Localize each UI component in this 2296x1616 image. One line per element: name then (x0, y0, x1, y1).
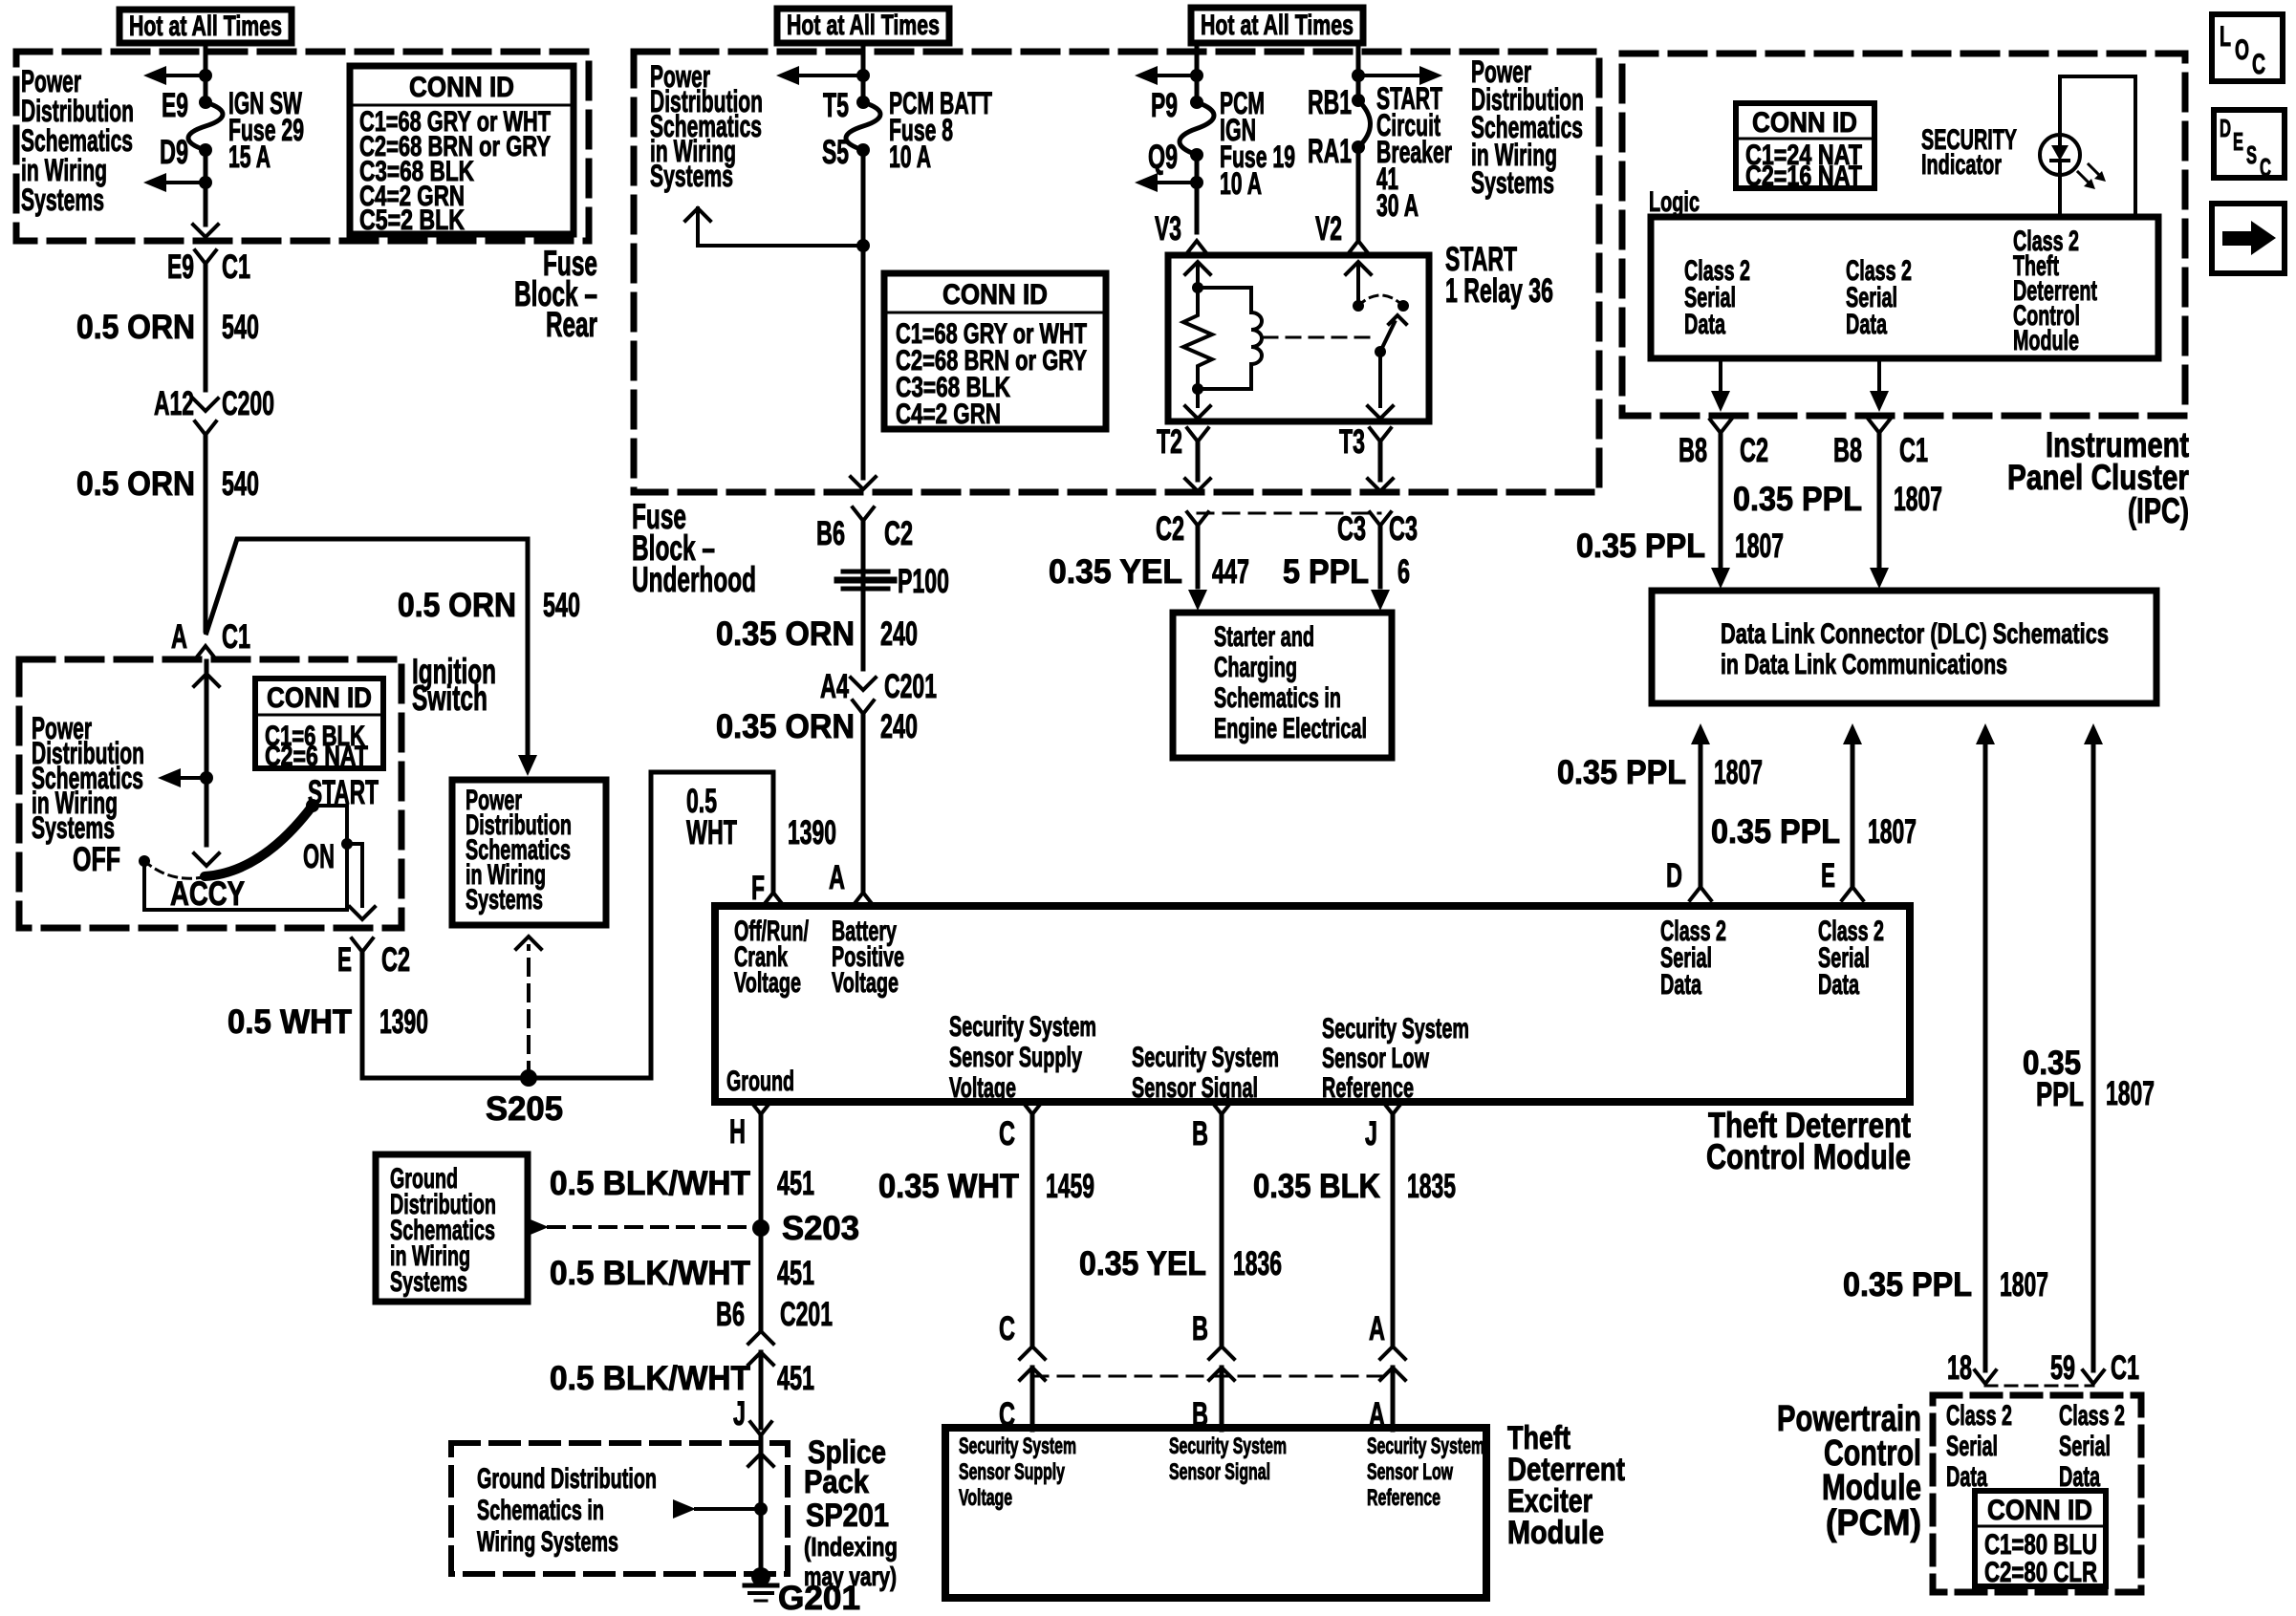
svg-text:240: 240 (880, 708, 918, 745)
connector chevron T2 (1187, 428, 1208, 442)
module box Theft Deterrent Exciter Module (945, 1428, 1486, 1598)
CONN ID table (PCM) (1975, 1491, 2106, 1586)
svg-text:240: 240 (880, 615, 918, 653)
wire from breaker junction (1356, 43, 1361, 100)
svg-text:Q9: Q9 (1148, 139, 1178, 176)
svg-text:Wiring Systems: Wiring Systems (477, 1526, 618, 1558)
svg-text:Systems: Systems (21, 183, 104, 217)
svg-text:A: A (829, 859, 845, 896)
svg-text:C: C (2252, 49, 2265, 80)
svg-text:Security System: Security System (1367, 1433, 1484, 1459)
svg-text:Starter and: Starter and (1214, 621, 1314, 653)
wire C sensor supply (1030, 1114, 1035, 1345)
svg-text:C4=2 GRN: C4=2 GRN (896, 399, 1001, 430)
svg-text:0.35 PPL: 0.35 PPL (1733, 481, 1862, 518)
LED flash arrows (2078, 172, 2091, 185)
svg-text:1390: 1390 (379, 1003, 428, 1041)
svg-text:0.5 BLK/WHT: 0.5 BLK/WHT (550, 1165, 750, 1202)
svg-text:5 PPL: 5 PPL (1283, 553, 1369, 591)
svg-text:C2: C2 (1156, 510, 1184, 548)
svg-text:0.35 BLK: 0.35 BLK (1253, 1168, 1380, 1205)
in-line connector C201 crossing (A4) (851, 678, 876, 690)
svg-text:B: B (1192, 1310, 1208, 1347)
node junction below fuse 8 (856, 239, 870, 252)
svg-text:Switch: Switch (412, 679, 487, 718)
connector chevron 59/C1 (2083, 1370, 2104, 1384)
svg-text:1459: 1459 (1046, 1168, 1094, 1205)
svg-text:T2: T2 (1157, 423, 1182, 461)
svg-text:C2=80 CLR: C2=80 CLR (1984, 1557, 2097, 1588)
wire T3 to starter box (1378, 526, 1383, 587)
svg-text:C: C (999, 1310, 1015, 1347)
svg-text:Control Module: Control Module (1706, 1137, 1911, 1176)
svg-text:B6: B6 (816, 515, 845, 552)
svg-text:V3: V3 (1155, 210, 1181, 248)
in-line connector C201 (ground) (748, 1331, 773, 1344)
wire A to exciter (1391, 1368, 1396, 1430)
svg-text:Data: Data (1818, 969, 1859, 1001)
connector chevron B6/C2 (underhood) (853, 507, 874, 521)
arrow into Power Distribution box (518, 755, 537, 776)
svg-text:Systems: Systems (1471, 165, 1554, 200)
svg-text:0.35 ORN: 0.35 ORN (716, 615, 855, 653)
svg-text:Systems: Systems (32, 810, 115, 845)
svg-text:O: O (2235, 34, 2249, 66)
svg-text:CONN ID: CONN ID (942, 279, 1048, 311)
svg-text:Sensor Supply: Sensor Supply (959, 1459, 1065, 1485)
svg-text:Module: Module (1822, 1468, 1921, 1508)
svg-text:C2=6 NAT: C2=6 NAT (265, 741, 368, 772)
svg-text:ON: ON (303, 838, 335, 875)
wire into ignition switch from A/C1 (194, 674, 219, 686)
svg-text:Reference: Reference (1322, 1072, 1414, 1104)
svg-text:C5=2 BLK: C5=2 BLK (359, 205, 465, 236)
relay node top-left (1192, 282, 1203, 293)
svg-text:Rear: Rear (546, 305, 597, 344)
svg-text:C2: C2 (884, 515, 913, 552)
connector chevron C2 crossing (1187, 512, 1208, 526)
wire B8/C2 to DLC (1719, 433, 1723, 566)
fuse F19 PCM IGN element (1190, 96, 1203, 109)
wire IPC logic left output (1719, 358, 1722, 390)
svg-text:P100: P100 (898, 563, 949, 600)
svg-text:J: J (1365, 1115, 1377, 1153)
svg-text:C200: C200 (222, 385, 274, 422)
svg-text:ACCY: ACCY (170, 875, 245, 913)
svg-text:B8: B8 (1833, 432, 1862, 469)
connector chevron V3 (1186, 241, 1207, 254)
solid box Data Link Connector (DLC) Schematics (1652, 591, 2156, 703)
coil L (relay) (1251, 312, 1262, 364)
wire IPC logic right output (1877, 358, 1881, 390)
svg-text:A: A (1369, 1310, 1385, 1347)
resistor R (relay) (1183, 288, 1212, 389)
svg-text:C1: C1 (222, 248, 250, 286)
svg-text:START: START (308, 774, 379, 811)
svg-text:447: 447 (1212, 553, 1249, 591)
svg-text:Engine Electrical: Engine Electrical (1214, 713, 1367, 744)
svg-text:Charging: Charging (1214, 652, 1297, 683)
wire H ground 451 upper (759, 1114, 764, 1228)
svg-text:D9: D9 (160, 134, 188, 171)
label box 'Hot at All Times' (right) (1191, 8, 1363, 43)
svg-text:B6: B6 (716, 1296, 745, 1333)
dashed connector line (exciter) (1032, 1375, 1393, 1378)
open arrow down to ACCY (194, 853, 219, 866)
svg-text:RB1: RB1 (1308, 84, 1352, 121)
svg-text:Data: Data (1846, 309, 1887, 340)
svg-text:Hot at All Times: Hot at All Times (787, 10, 940, 41)
wire B6 to A4 connector (861, 521, 866, 669)
svg-text:0.5 WHT: 0.5 WHT (227, 1003, 352, 1041)
dashed actuation line coil to armature (1264, 336, 1369, 339)
svg-text:1807: 1807 (2000, 1266, 2048, 1304)
svg-text:C: C (2260, 153, 2271, 182)
svg-text:T3: T3 (1339, 423, 1365, 461)
svg-text:(IPC): (IPC) (2128, 491, 2189, 530)
svg-text:E: E (2233, 127, 2243, 156)
svg-text:Security System: Security System (959, 1433, 1076, 1459)
icon box DESC (2214, 110, 2285, 178)
connector chevron B8/C1 (1869, 420, 1890, 433)
node junction on wire (199, 69, 212, 82)
svg-text:CONN ID: CONN ID (409, 72, 514, 103)
svg-text:1807: 1807 (1894, 481, 1942, 518)
svg-text:6: 6 (1397, 553, 1410, 591)
connector chevron T3 (1370, 428, 1391, 442)
node junction P9 feed (1190, 69, 1203, 82)
svg-text:Sensor Supply: Sensor Supply (949, 1042, 1082, 1073)
in-line connector row (exciter) (1020, 1347, 1045, 1359)
dashed arc between contacts (1358, 295, 1403, 306)
wire DLC up-arrow D (1691, 723, 1710, 744)
wire C to exciter (1030, 1368, 1035, 1430)
svg-text:Sensor Low: Sensor Low (1322, 1043, 1429, 1074)
relay coil wiring (1198, 286, 1251, 290)
svg-text:0.35 PPL: 0.35 PPL (1711, 813, 1840, 851)
svg-text:E: E (337, 941, 352, 979)
relay stationary contact (1353, 300, 1364, 312)
svg-text:451: 451 (777, 1255, 814, 1292)
wire to left arrow (middle col) (799, 74, 863, 77)
svg-text:Class 2: Class 2 (2059, 1400, 2125, 1432)
wire to left arrow below Q9 (1158, 181, 1197, 184)
svg-text:in Data Link Communications: in Data Link Communications (1721, 649, 2007, 680)
wire ON to output (347, 842, 362, 846)
wire DLC up-arrow PCM C1 (2084, 723, 2103, 744)
svg-text:Module: Module (1507, 1515, 1604, 1551)
connector chevron J (750, 1422, 771, 1435)
svg-text:Indicator: Indicator (1921, 149, 2002, 181)
svg-text:C3: C3 (1389, 510, 1418, 548)
svg-text:Serial: Serial (2059, 1431, 2111, 1462)
svg-text:S: S (2246, 140, 2257, 169)
splice S203 (752, 1219, 769, 1237)
solid box Power Distribution Schematics (reference) (452, 780, 606, 925)
icon box LOC (2212, 14, 2283, 81)
svg-text:0.5 ORN: 0.5 ORN (76, 309, 195, 346)
wire below fuse 19 (1195, 155, 1200, 232)
wire T3 down to edge (1378, 442, 1383, 480)
svg-text:Logic: Logic (1649, 186, 1700, 218)
svg-text:0.35 YEL: 0.35 YEL (1049, 553, 1182, 591)
arrow from ground distribution box (526, 1217, 549, 1237)
wire to left arrow 2 (166, 181, 206, 184)
svg-text:L: L (2220, 21, 2231, 53)
relay armature with arrow (1375, 346, 1386, 357)
wire DLC up-arrow E (1843, 723, 1862, 744)
connector chevron D (1690, 887, 1711, 900)
svg-text:Systems: Systems (466, 884, 543, 916)
svg-text:540: 540 (222, 309, 259, 346)
wire breaker to V2 (1356, 147, 1361, 242)
wire J to G201 (748, 1454, 773, 1466)
svg-text:C2=16 NAT: C2=16 NAT (1745, 161, 1862, 192)
svg-text:451: 451 (777, 1360, 814, 1397)
connector chevron H (750, 1101, 771, 1114)
wire fuse 8 down to underhood edge (861, 150, 866, 478)
connector chevron E (TDCM) (1842, 887, 1863, 900)
svg-text:Pack: Pack (804, 1464, 869, 1500)
svg-text:B8: B8 (1679, 432, 1707, 469)
connector chevron C3 crossing (1370, 512, 1391, 526)
fuse F8 PCM BATT element (856, 96, 870, 109)
fuse F29 IGN SW element (199, 96, 212, 109)
label box 'Hot at All Times' (left) (119, 10, 292, 43)
node junction below fuse 19 (1190, 176, 1203, 189)
node junction T5 feed (856, 69, 870, 82)
svg-text:B: B (1192, 1115, 1208, 1153)
svg-text:C1: C1 (222, 618, 250, 656)
svg-text:E: E (1821, 857, 1835, 894)
wire B to exciter (1220, 1368, 1224, 1430)
svg-text:0.5 BLK/WHT: 0.5 BLK/WHT (550, 1360, 750, 1397)
switch OFF contact (139, 855, 150, 867)
svg-text:A4: A4 (820, 668, 849, 705)
svg-text:Sensor Signal: Sensor Signal (1169, 1459, 1270, 1485)
wire fuse to box edge (204, 150, 208, 183)
svg-text:CONN ID: CONN ID (1987, 1495, 2092, 1526)
CONN ID table (underhood) (884, 273, 1106, 429)
svg-text:Systems: Systems (390, 1266, 467, 1298)
svg-text:Module: Module (2013, 325, 2079, 356)
switch rotor thick arc ACCY to START (205, 806, 313, 876)
svg-text:1390: 1390 (788, 814, 836, 851)
svg-text:C1: C1 (2111, 1349, 2139, 1387)
svg-text:SP201: SP201 (806, 1497, 889, 1534)
wire J sensor low ref (1391, 1114, 1396, 1345)
svg-text:Voltage: Voltage (949, 1072, 1016, 1104)
svg-text:C1: C1 (1899, 432, 1928, 469)
in-line connector C200 crossing (193, 399, 218, 411)
svg-text:30 A: 30 A (1376, 188, 1419, 223)
connector chevron J (TDCM low ref) (1382, 1101, 1403, 1114)
connector chevron E/C2 (352, 938, 373, 952)
svg-text:Data Link Connector (DLC) Sche: Data Link Connector (DLC) Schematics (1721, 618, 2109, 650)
svg-text:0.35 PPL: 0.35 PPL (1576, 528, 1705, 565)
svg-text:S203: S203 (782, 1210, 859, 1247)
wire B sensor signal (1220, 1114, 1224, 1345)
svg-text:D: D (1666, 857, 1682, 894)
wire to right arrow (power dist) (1358, 74, 1419, 77)
svg-text:1835: 1835 (1407, 1168, 1456, 1205)
CONN ID table (ignition switch) (255, 679, 383, 768)
svg-text:Voltage: Voltage (734, 967, 801, 999)
svg-text:0.5 BLK/WHT: 0.5 BLK/WHT (550, 1255, 750, 1292)
wire S205 to TDCM pin F (529, 772, 773, 1078)
node junction RB1 feed (1352, 69, 1365, 82)
svg-text:Underhood: Underhood (632, 560, 756, 599)
svg-text:A12: A12 (154, 385, 194, 422)
svg-text:18: 18 (1947, 1349, 1972, 1387)
svg-text:1836: 1836 (1233, 1245, 1282, 1282)
connector chevron A/C1 at ignition switch (195, 646, 216, 659)
svg-text:C3: C3 (1337, 510, 1366, 548)
connector chevron B8/C2 (1710, 420, 1731, 433)
svg-text:Systems: Systems (650, 159, 733, 193)
connector chevron F (763, 893, 784, 906)
svg-text:A: A (171, 618, 187, 656)
svg-text:D: D (2220, 114, 2231, 142)
svg-text:Serial: Serial (1946, 1431, 1998, 1462)
svg-text:S5: S5 (822, 134, 849, 171)
svg-text:0.35 ORN: 0.35 ORN (716, 708, 855, 745)
wire H ground 451 middle (759, 1228, 764, 1329)
solid box Starter and Charging Schematics (1173, 613, 1392, 758)
wire from Hot at All Times down to fuse 29 (204, 43, 208, 102)
dashed box Powertrain Control Module (1933, 1395, 2141, 1592)
svg-text:1807: 1807 (2106, 1075, 2155, 1112)
wire D to TDCM (1699, 744, 1703, 887)
svg-text:Sensor Signal: Sensor Signal (1132, 1072, 1258, 1104)
wire B8/C1 to DLC (1877, 433, 1882, 566)
wire from Hot at All Times (middle) down (861, 43, 866, 102)
svg-text:0.35 PPL: 0.35 PPL (1557, 754, 1686, 791)
svg-text:G201: G201 (778, 1580, 860, 1616)
svg-text:J: J (733, 1395, 746, 1433)
connector chevron V2 (1348, 241, 1369, 254)
svg-text:P9: P9 (1151, 87, 1178, 124)
svg-text:WHT: WHT (686, 814, 737, 851)
logic box (IPC) (1651, 217, 2158, 358)
svg-text:Ground Distribution: Ground Distribution (477, 1463, 657, 1495)
svg-text:451: 451 (777, 1165, 814, 1202)
svg-text:1 Relay 36: 1 Relay 36 (1445, 272, 1553, 310)
svg-text:Schematics in: Schematics in (1214, 682, 1341, 714)
wire T2 to starter box (1196, 526, 1201, 587)
svg-text:Security System: Security System (1322, 1013, 1469, 1045)
wire down to TDCM pin A (861, 714, 866, 893)
svg-text:Security System: Security System (949, 1011, 1096, 1043)
wire segment 0.5 ORN 540 (upper) (204, 264, 208, 390)
dashed box Fuse Block - Rear (16, 52, 589, 241)
svg-text:T5: T5 (823, 87, 849, 124)
svg-text:PPL: PPL (2036, 1076, 2084, 1113)
wire H ground 451 lower (759, 1352, 764, 1428)
svg-text:59: 59 (2050, 1349, 2075, 1387)
svg-text:CONN ID: CONN ID (1752, 107, 1857, 139)
dashed connector line C2-C3 (1198, 512, 1380, 515)
connector chevron 18 (1975, 1370, 1996, 1384)
ground G201 symbol (751, 1567, 770, 1586)
icon box right arrow (2212, 204, 2285, 273)
svg-text:Security System: Security System (1169, 1433, 1287, 1459)
wire output down with arrow (360, 844, 364, 906)
svg-text:RA1: RA1 (1308, 133, 1352, 170)
dashed reference wire S205 to Power Distribution box (527, 946, 531, 1078)
svg-text:C: C (999, 1115, 1015, 1153)
connector chevron C (TDCM) (1022, 1101, 1043, 1114)
svg-text:540: 540 (543, 587, 580, 624)
module box Theft Deterrent Control Module (715, 906, 1910, 1102)
svg-text:Hot at All Times: Hot at All Times (129, 11, 282, 42)
svg-text:1807: 1807 (1735, 528, 1784, 565)
wire to left arrow (ignition) (182, 776, 206, 780)
svg-text:Ground: Ground (726, 1066, 794, 1097)
wire PCM 18 riser (1983, 744, 1988, 1370)
arrow from bottom box to splice (673, 1499, 696, 1519)
svg-text:Voltage: Voltage (959, 1485, 1012, 1511)
wire to left arrow (fuse19) (1158, 74, 1197, 77)
connector chevron B (TDCM) (1211, 1101, 1232, 1114)
wire 0.5 WHT 1390 from ignition (360, 952, 365, 1078)
svg-text:Schematics in: Schematics in (477, 1495, 604, 1526)
svg-text:(Indexing: (Indexing (804, 1532, 898, 1562)
svg-text:C2: C2 (381, 941, 410, 979)
wire DLC up-arrow PCM 18 (1976, 723, 1995, 744)
svg-text:15 A: 15 A (228, 140, 271, 174)
svg-text:Sensor Low: Sensor Low (1367, 1459, 1453, 1485)
svg-text:0.35 PPL: 0.35 PPL (1843, 1266, 1972, 1304)
node junction ignition feed (200, 771, 213, 785)
svg-text:H: H (729, 1113, 746, 1151)
connector chevron A (TDCM) (853, 893, 874, 906)
wire PCM C1 riser (2091, 744, 2096, 1370)
svg-text:C2: C2 (1740, 432, 1768, 469)
dashed arc OFF to ACCY (144, 861, 203, 878)
node junction splice arrow (754, 1502, 768, 1516)
reference up-arrow under text (685, 208, 710, 221)
relay contact NO (1397, 300, 1409, 312)
svg-text:1807: 1807 (1868, 813, 1917, 851)
wire START to ON post (313, 804, 347, 808)
dashed box Instrument Panel Cluster (1622, 54, 2185, 416)
wire down to dashed edge with arrow (204, 183, 208, 225)
wire segment 0.5 ORN 540 (lower) (204, 435, 208, 631)
splice S205 (520, 1069, 537, 1087)
svg-text:10 A: 10 A (1220, 166, 1262, 201)
svg-text:Reference: Reference (1367, 1485, 1440, 1511)
svg-text:F: F (751, 870, 765, 907)
wire to left arrow (166, 74, 206, 77)
dashed box Fuse Block - Underhood (634, 52, 1599, 492)
relay armature to T3 arrow (1378, 352, 1382, 406)
label box 'Hot at All Times' (middle) (777, 9, 949, 43)
relay box START 1 Relay 36 (1168, 255, 1429, 421)
grommet P100 (843, 570, 888, 574)
CONN ID table (Fuse Block Rear) (350, 66, 574, 234)
svg-text:0.35 WHT: 0.35 WHT (878, 1168, 1019, 1205)
CONN ID table (IPC) (1736, 103, 1874, 188)
solid box Ground Distribution Schematics (376, 1154, 528, 1302)
svg-text:Hot at All Times: Hot at All Times (1201, 10, 1354, 41)
circuit breaker 41 element (1352, 94, 1365, 107)
dashed box Ignition Switch (19, 659, 401, 928)
svg-text:E9: E9 (167, 248, 194, 286)
wire OFF post down and across (142, 861, 146, 910)
svg-text:Class 2: Class 2 (1946, 1400, 2012, 1432)
svg-text:CONN ID: CONN ID (267, 682, 372, 714)
